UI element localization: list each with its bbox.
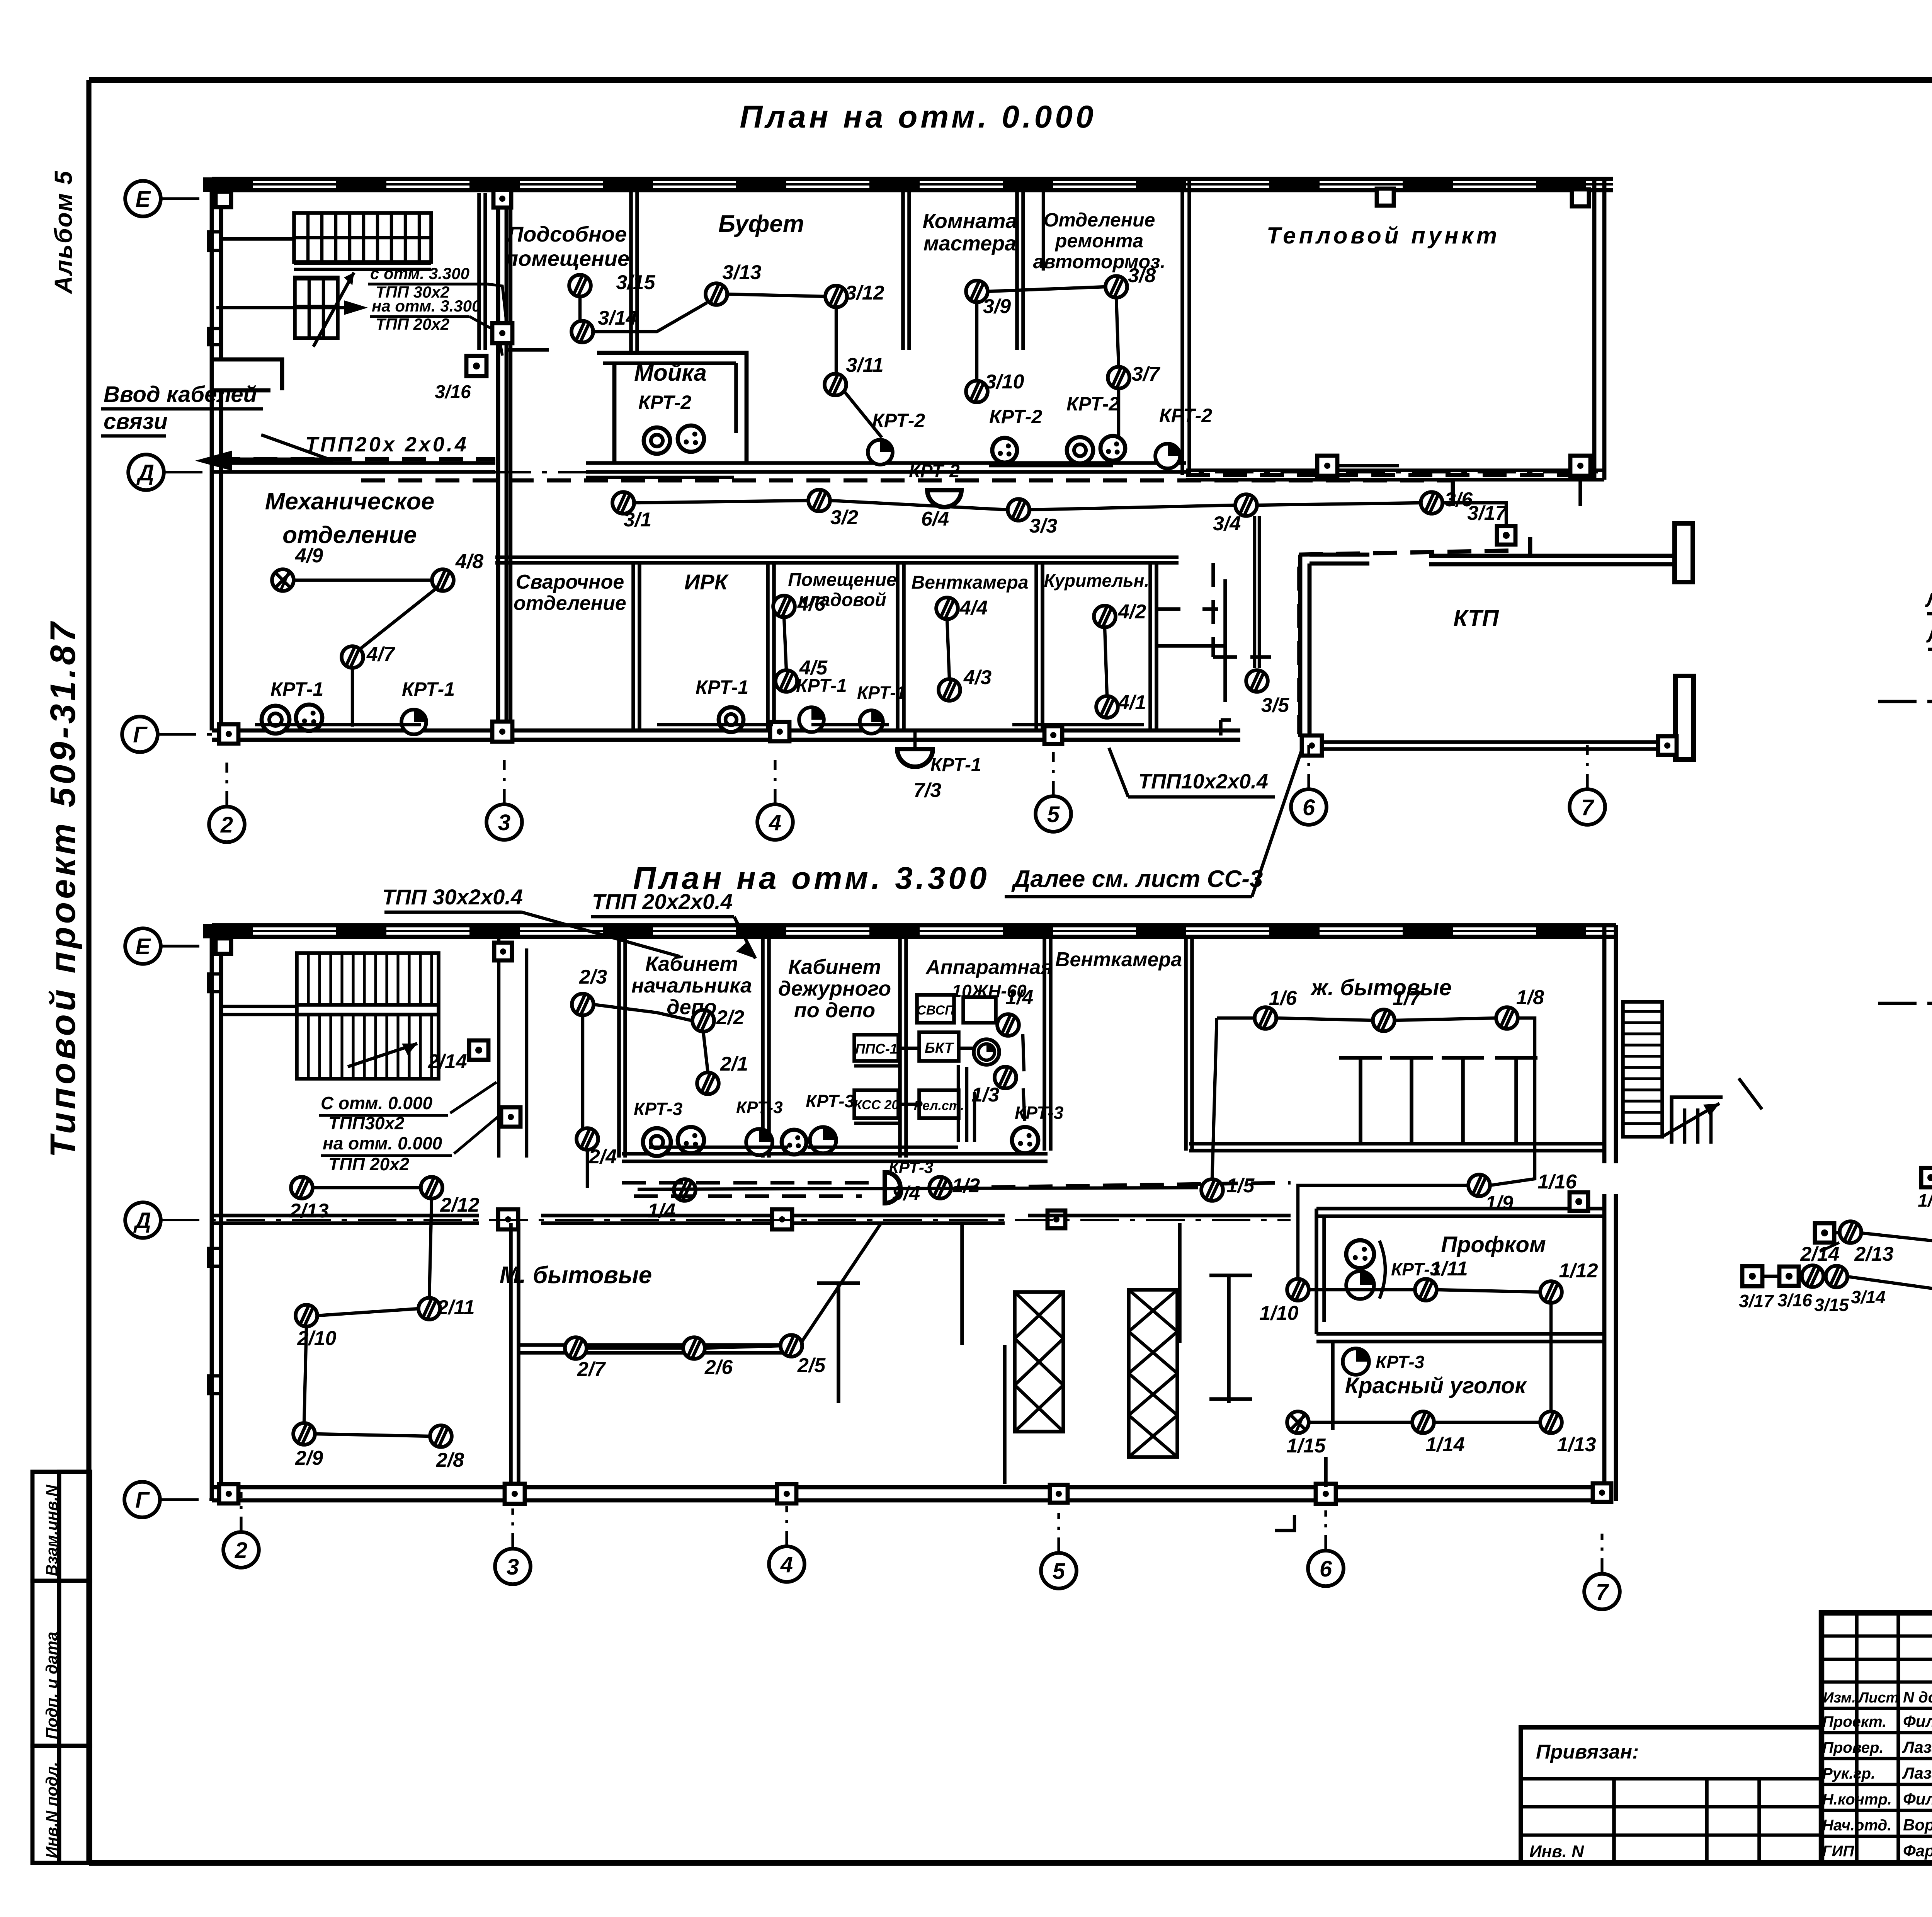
svg-text:по депо: по депо — [794, 999, 875, 1022]
svg-text:6: 6 — [1320, 1556, 1332, 1582]
svg-text:Е: Е — [136, 187, 151, 212]
svg-text:Лазарев: Лазарев — [1902, 1738, 1932, 1756]
otm 0.000 line — [1878, 1002, 1932, 1005]
svg-text:ж. бытовые: ж. бытовые — [1310, 975, 1451, 1000]
svg-text:Г: Г — [135, 1488, 150, 1513]
svg-text:1/11: 1/11 — [1430, 1258, 1468, 1280]
plan1 corridor dashed cable — [216, 457, 495, 461]
svg-text:7: 7 — [1596, 1580, 1609, 1605]
plan2 grid circles — [223, 1532, 259, 1568]
plan1 Moyka room — [597, 353, 747, 463]
svg-text:Нач.отд.: Нач.отд. — [1822, 1817, 1891, 1834]
svg-text:СВСП: СВСП — [917, 1003, 955, 1018]
svg-text:начальника: начальника — [631, 974, 752, 997]
svg-text:1/4: 1/4 — [1005, 986, 1033, 1009]
plan1 bottom-right stalls — [1157, 607, 1180, 611]
plan2 office detectors — [572, 994, 594, 1015]
plan1 right block Teplovoy punkt — [1180, 179, 1184, 475]
svg-text:2/13: 2/13 — [289, 1200, 328, 1222]
svg-text:Подп. и дата: Подп. и дата — [43, 1632, 61, 1739]
svg-text:2/4: 2/4 — [588, 1146, 617, 1168]
svg-text:3/11: 3/11 — [846, 354, 883, 376]
plan2 right staircase — [1623, 1002, 1662, 1137]
svg-text:Е: Е — [136, 934, 151, 959]
plan1 grid circles — [209, 807, 245, 842]
svg-text:1/3: 1/3 — [971, 1084, 999, 1106]
plan2 corridor dashed cables — [622, 1181, 873, 1185]
plan1 partition Komnata/Otdelenie — [1015, 179, 1019, 350]
svg-text:3/15: 3/15 — [1814, 1295, 1849, 1315]
svg-text:Комната: Комната — [923, 209, 1017, 233]
svg-text:Типовой проект 509-31.87: Типовой проект 509-31.87 — [43, 619, 83, 1158]
plan1 dashed drop to KTP — [1211, 563, 1215, 657]
svg-text:2/11: 2/11 — [437, 1296, 474, 1319]
small grid horizontals — [1821, 1634, 1932, 1638]
svg-text:БКТ: БКТ — [925, 1040, 954, 1056]
svg-text:Д: Д — [133, 1208, 151, 1233]
svg-text:2: 2 — [235, 1538, 247, 1563]
plan1 manual detector 4/9 — [272, 569, 294, 591]
plan1 grid jboxes on bottom wall — [219, 724, 238, 744]
svg-text:Далее см. лист СС-3: Далее см. лист СС-3 — [1011, 866, 1263, 892]
svg-text:3/9: 3/9 — [983, 295, 1011, 318]
plan1 bottom wall (axis G) — [212, 729, 1240, 733]
svg-text:3/17: 3/17 — [1467, 502, 1507, 524]
plan2 axis circles — [125, 928, 161, 964]
svg-text:N докум.: N докум. — [1903, 1689, 1932, 1706]
svg-text:3/14: 3/14 — [598, 307, 637, 329]
svg-text:4: 4 — [769, 810, 781, 835]
svg-text:КРТ-3: КРТ-3 — [1376, 1352, 1425, 1372]
svg-text:Филимонова: Филимонова — [1903, 1712, 1932, 1730]
svg-text:4/2: 4/2 — [1118, 601, 1146, 623]
svg-text:2/12: 2/12 — [440, 1194, 479, 1216]
svg-text:КРТ-3: КРТ-3 — [634, 1099, 683, 1119]
svg-text:КРТ-2: КРТ-2 — [989, 406, 1042, 427]
svg-text:мастера: мастера — [923, 232, 1016, 255]
svg-text:3/3: 3/3 — [1029, 515, 1057, 537]
svg-text:Филимонова: Филимонова — [1903, 1790, 1932, 1808]
svg-text:КРТ-2: КРТ-2 — [872, 410, 925, 431]
svg-text:3/4: 3/4 — [1213, 512, 1241, 535]
plan2 corridor solid cable luch1 — [638, 1188, 1198, 1189]
plan2 corridor detectors — [674, 1179, 696, 1201]
svg-text:3/16: 3/16 — [435, 382, 471, 402]
plan2 mid partitions — [960, 1223, 964, 1345]
svg-text:Рел.ст.: Рел.ст. — [914, 1098, 964, 1113]
svg-text:КРТ-2: КРТ-2 — [909, 461, 960, 482]
svg-text:Ввод кабелей: Ввод кабелей — [104, 382, 257, 407]
plan1 teplovoy punkt cable boxes — [1317, 456, 1337, 476]
plan2 riser block — [497, 937, 500, 1158]
svg-text:Помещение: Помещение — [788, 570, 896, 590]
svg-text:4: 4 — [780, 1552, 793, 1577]
plan1 partition Bufet/Komnata — [901, 179, 905, 350]
plan2 Profkom room — [1316, 1207, 1604, 1210]
svg-text:3/1: 3/1 — [624, 509, 651, 531]
svg-text:ГИП: ГИП — [1822, 1843, 1854, 1860]
plan2 office partitions — [617, 937, 621, 1158]
svg-text:1/16: 1/16 — [1918, 1190, 1932, 1210]
plan1 detectors loop 3 and 4 — [569, 275, 591, 296]
otm 3.300 line — [1878, 700, 1932, 703]
svg-text:Инв. N: Инв. N — [1529, 1842, 1584, 1861]
title block outer — [1821, 1613, 1932, 1863]
svg-text:2/2: 2/2 — [716, 1006, 744, 1029]
svg-text:КРТ-1: КРТ-1 — [930, 755, 981, 775]
plan2 zh.bytovye room — [1189, 1142, 1604, 1146]
svg-text:Рук.гр.: Рук.гр. — [1822, 1765, 1875, 1782]
plan2 bottom jboxes — [219, 1484, 238, 1503]
svg-text:4/3: 4/3 — [963, 666, 992, 689]
plan2 profkom devices KRT-3 — [1346, 1240, 1374, 1268]
svg-text:Инв.N подл.: Инв.N подл. — [43, 1762, 61, 1858]
svg-text:3/17: 3/17 — [1739, 1291, 1774, 1311]
svg-text:1/4: 1/4 — [648, 1200, 675, 1222]
svg-text:5: 5 — [1053, 1559, 1065, 1584]
svg-text:ТПП 20х2: ТПП 20х2 — [328, 1154, 410, 1174]
plan1 left wall — [210, 179, 214, 730]
svg-text:4/1: 4/1 — [1118, 691, 1146, 714]
plan1 bench lines — [255, 723, 421, 726]
plan2 left wall — [210, 925, 214, 1501]
svg-text:КРТ-3: КРТ-3 — [889, 1158, 933, 1176]
svg-text:связи: связи — [104, 409, 168, 434]
plan1 corridor bottom wall — [495, 555, 1179, 559]
plan2 loop1 wires — [1217, 1016, 1255, 1020]
svg-text:Проект.: Проект. — [1822, 1713, 1886, 1730]
sheet frame — [89, 77, 1932, 83]
svg-text:Венткамера: Венткамера — [912, 572, 1029, 593]
svg-text:КРТ-2: КРТ-2 — [638, 392, 691, 413]
plan2 krasny ugolok devices — [1343, 1348, 1369, 1375]
svg-text:5: 5 — [1047, 802, 1060, 827]
svg-text:ТПП 20х2: ТПП 20х2 — [376, 315, 449, 333]
svg-text:2/7: 2/7 — [577, 1358, 606, 1381]
svg-text:Сварочное: Сварочное — [516, 571, 624, 593]
plan2 bottom wall — [212, 1485, 1611, 1490]
svg-text:2/9: 2/9 — [295, 1447, 323, 1469]
svg-text:6: 6 — [1303, 795, 1315, 820]
svg-text:дежурного: дежурного — [778, 977, 891, 1000]
plan2 right wall upper — [1602, 925, 1607, 1163]
svg-text:1/15: 1/15 — [1286, 1435, 1326, 1457]
plan2 right wall lower — [1602, 1194, 1607, 1501]
svg-text:3/16: 3/16 — [1777, 1290, 1812, 1310]
plan2 Krasny ugolok left wall — [1331, 1342, 1335, 1430]
plan2 office wires — [594, 1004, 692, 1021]
svg-text:7: 7 — [1581, 795, 1595, 820]
svg-text:Н.контр.: Н.контр. — [1822, 1791, 1892, 1808]
svg-text:2/13: 2/13 — [1854, 1243, 1893, 1265]
svg-text:КРТ-1: КРТ-1 — [696, 676, 748, 698]
svg-text:3: 3 — [498, 810, 510, 835]
svg-text:Профком: Профком — [1441, 1232, 1546, 1257]
svg-text:4/6: 4/6 — [797, 593, 826, 615]
plan1 partition right of Otdelenie (thin) — [1042, 179, 1045, 271]
plan2 loop2 detectors — [291, 1177, 313, 1199]
svg-text:КРТ-2: КРТ-2 — [1159, 405, 1212, 426]
svg-text:ТПП30х2: ТПП30х2 — [328, 1113, 405, 1133]
plan1 detector wires — [294, 579, 432, 582]
svg-text:отделение: отделение — [514, 592, 626, 615]
plan1 KTP room — [1299, 550, 1520, 555]
svg-text:Г: Г — [133, 722, 148, 747]
svg-text:2/8: 2/8 — [436, 1449, 464, 1471]
plan1 stairs — [294, 213, 431, 262]
plan2 g-axis details circle6 — [1324, 1457, 1328, 1487]
svg-text:Воронько: Воронько — [1903, 1816, 1932, 1834]
svg-text:2/6: 2/6 — [704, 1356, 733, 1379]
svg-text:1/14: 1/14 — [1425, 1433, 1464, 1456]
svg-text:ЛУЧ-1: ЛУЧ-1 — [1925, 589, 1932, 611]
svg-text:Провер.: Провер. — [1822, 1739, 1884, 1756]
svg-text:ЛУЧ-2: ЛУЧ-2 — [1926, 625, 1932, 647]
svg-text:Мойка: Мойка — [634, 360, 707, 386]
svg-text:Изм.: Изм. — [1823, 1690, 1856, 1706]
svg-text:3/12: 3/12 — [845, 282, 884, 304]
svg-text:3/14: 3/14 — [1851, 1287, 1886, 1307]
svg-text:Механическое: Механическое — [265, 488, 434, 515]
plan1 axis D wall — [212, 461, 495, 465]
title block small grid verticals — [1855, 1613, 1859, 1863]
svg-text:С отм. 0.000: С отм. 0.000 — [321, 1093, 433, 1113]
svg-text:1/13: 1/13 — [1557, 1433, 1596, 1456]
svg-text:ТПП20х 2х0.4: ТПП20х 2х0.4 — [305, 433, 469, 456]
svg-text:КТП: КТП — [1453, 605, 1499, 631]
svg-text:2/1: 2/1 — [720, 1053, 748, 1075]
svg-text:1/12: 1/12 — [1559, 1260, 1598, 1282]
plan1 left wall windows — [209, 232, 221, 250]
svg-text:3/15: 3/15 — [616, 271, 655, 294]
svg-text:КРТ-3: КРТ-3 — [736, 1098, 783, 1117]
svg-text:6/4: 6/4 — [921, 508, 949, 530]
svg-text:Подсобное: Подсобное — [508, 222, 627, 246]
svg-text:ТПП 20х2х0.4: ТПП 20х2х0.4 — [592, 889, 733, 914]
svg-text:3/2: 3/2 — [830, 506, 858, 529]
svg-text:КРТ-1: КРТ-1 — [796, 676, 847, 696]
svg-text:2/14: 2/14 — [427, 1050, 467, 1073]
svg-text:Фартушный: Фартушный — [1903, 1842, 1932, 1860]
svg-text:2: 2 — [220, 812, 233, 838]
svg-text:Буфет: Буфет — [718, 211, 804, 237]
svg-text:3/13: 3/13 — [722, 261, 761, 284]
svg-text:7/3: 7/3 — [913, 779, 941, 802]
svg-text:ТПП 30х2х0.4: ТПП 30х2х0.4 — [382, 885, 523, 909]
svg-text:9/4: 9/4 — [892, 1182, 920, 1205]
svg-text:ИРК: ИРК — [684, 570, 729, 594]
svg-text:1/10: 1/10 — [1259, 1302, 1298, 1325]
margin stamp boxes — [32, 1472, 90, 1581]
svg-text:3/8: 3/8 — [1128, 264, 1156, 287]
svg-text:КРТ-3: КРТ-3 — [1015, 1103, 1064, 1123]
svg-text:Венткамера: Венткамера — [1055, 948, 1182, 971]
svg-text:КРТ-2: КРТ-2 — [1066, 393, 1119, 415]
plan1 KRT-1 7/3 bottom — [897, 749, 933, 767]
svg-text:Д: Д — [136, 460, 154, 485]
svg-text:1/6: 1/6 — [1269, 987, 1297, 1010]
plan1 KRT-2 krt box 6/4 — [927, 490, 961, 507]
svg-text:на отм. 3.300: на отм. 3.300 — [372, 297, 481, 315]
svg-text:4/8: 4/8 — [455, 550, 483, 573]
svg-text:Альбом 5: Альбом 5 — [49, 170, 77, 295]
svg-text:Аппаратная: Аппаратная — [925, 956, 1053, 979]
svg-text:3: 3 — [507, 1554, 519, 1580]
svg-text:3/10: 3/10 — [985, 371, 1024, 393]
plan1 axis circles — [125, 181, 161, 216]
plan1 duct wall left of Podsobnoe — [477, 193, 481, 350]
svg-text:КРТ-3: КРТ-3 — [806, 1091, 855, 1111]
svg-text:ППС-1: ППС-1 — [855, 1041, 898, 1057]
privyazan box — [1521, 1727, 1821, 1863]
svg-text:1/9: 1/9 — [1485, 1192, 1513, 1214]
svg-text:Привязан:: Привязан: — [1536, 1741, 1639, 1763]
svg-text:Кабинет: Кабинет — [645, 952, 738, 976]
svg-text:Курительн.: Курительн. — [1044, 570, 1149, 591]
svg-text:с отм. 3.300: с отм. 3.300 — [370, 264, 469, 283]
plan1 cable tray vertical riser — [509, 197, 512, 730]
svg-text:ТПП10х2х0.4: ТПП10х2х0.4 — [1138, 770, 1268, 793]
plan2 top wall — [212, 923, 1616, 928]
svg-text:М. бытовые: М. бытовые — [500, 1262, 652, 1289]
svg-text:КРТ-1: КРТ-1 — [857, 683, 906, 703]
plan2 X-braced shafts — [1015, 1292, 1063, 1432]
svg-text:помещение: помещение — [505, 246, 629, 271]
plan1 inner wall axis 3 — [496, 179, 500, 730]
svg-text:КРТ-1: КРТ-1 — [402, 678, 455, 700]
plan1 bottom row partitions — [631, 563, 635, 730]
svg-text:2/10: 2/10 — [297, 1327, 336, 1350]
svg-text:2/3: 2/3 — [579, 966, 607, 988]
svg-text:Отделение: Отделение — [1044, 209, 1155, 231]
plan2 apparatus boxes — [917, 995, 954, 1023]
svg-text:Тепловой пункт: Тепловой пункт — [1267, 223, 1500, 249]
svg-text:4/9: 4/9 — [295, 545, 323, 567]
svg-text:Лист: Лист — [1857, 1690, 1899, 1706]
svg-text:План на отм. 0.000: План на отм. 0.000 — [740, 99, 1096, 134]
svg-text:1/5: 1/5 — [1226, 1175, 1255, 1197]
plan2 axis D wall segments — [212, 1214, 479, 1217]
svg-text:1/7: 1/7 — [1393, 987, 1421, 1010]
svg-text:на отм. 0.000: на отм. 0.000 — [323, 1133, 442, 1153]
plan1 vestibule wall — [212, 359, 282, 390]
svg-text:1/16: 1/16 — [1537, 1171, 1577, 1193]
svg-text:3/5: 3/5 — [1261, 694, 1289, 717]
plan2 loop2 wires — [313, 1186, 421, 1189]
svg-text:4/7: 4/7 — [366, 643, 395, 666]
svg-text:Взам.инв.N: Взам.инв.N — [43, 1484, 61, 1576]
svg-text:КРТ-1: КРТ-1 — [270, 678, 323, 700]
svg-text:Красный уголок: Красный уголок — [1345, 1373, 1527, 1398]
plan2 loop1 detectors — [1255, 1007, 1276, 1029]
svg-text:Лазарев: Лазарев — [1902, 1764, 1932, 1782]
svg-text:ремонта: ремонта — [1054, 230, 1143, 252]
svg-text:2/5: 2/5 — [797, 1354, 826, 1377]
plan1 partition Podsobnoe/Bufet — [629, 179, 633, 353]
plan1 top wall with windows — [212, 177, 1613, 181]
plan2 stairs — [297, 953, 439, 1079]
svg-text:КСС 20: КСС 20 — [854, 1098, 899, 1112]
svg-text:Кабинет: Кабинет — [788, 955, 881, 979]
svg-text:1/8: 1/8 — [1516, 986, 1544, 1009]
svg-text:4/4: 4/4 — [959, 597, 988, 619]
plan2 M.bytovye walls — [509, 1223, 513, 1487]
svg-text:3/7: 3/7 — [1132, 363, 1160, 385]
